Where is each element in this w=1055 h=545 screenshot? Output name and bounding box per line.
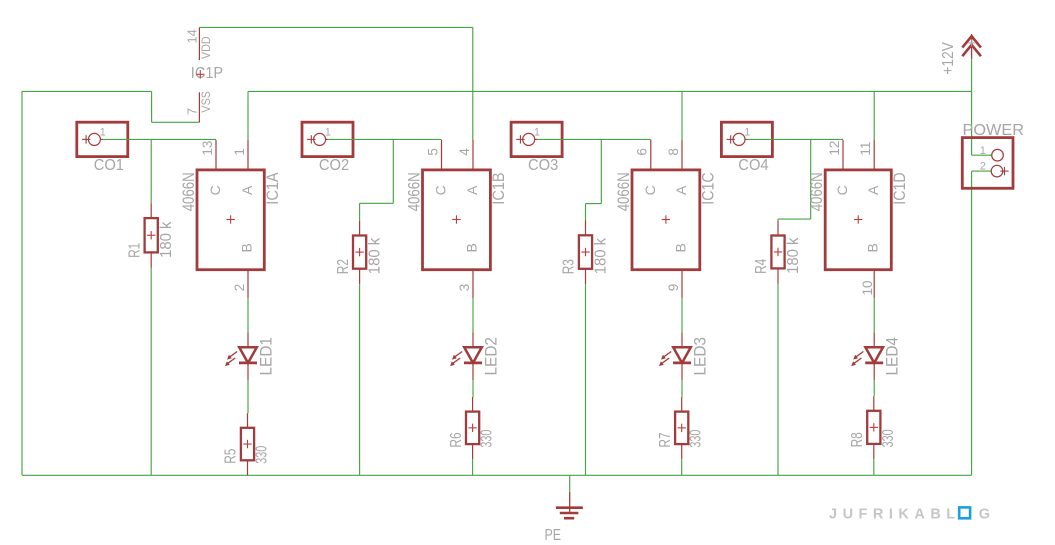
- R6 value 330: [479, 429, 496, 447]
- LED3 name: [691, 337, 709, 376]
- R1 value 180 k: [158, 221, 175, 258]
- svg-text:5: 5: [425, 148, 440, 156]
- CO2 pin number 1: [325, 126, 331, 138]
- svg-text:1: 1: [100, 126, 106, 138]
- IC1P pin 7 VSS stub: [198, 92, 200, 122]
- CO3 label: [528, 157, 558, 174]
- wire VDD net horizontal: [199, 26, 472, 28]
- pin name A: [865, 185, 881, 195]
- svg-text:R5: R5: [223, 449, 240, 464]
- resistor R2 180k: [353, 236, 366, 269]
- pin number 4: [457, 148, 472, 156]
- svg-text:8: 8: [666, 148, 681, 156]
- wire GND jog down to VSS: [151, 91, 153, 122]
- svg-text:IC1A: IC1A: [264, 172, 282, 204]
- svg-text:R6: R6: [448, 432, 465, 447]
- resistor R1 top stub: [150, 203, 152, 218]
- svg-text:12: 12: [827, 141, 842, 156]
- wire pin 2 to LED1: [247, 298, 249, 332]
- pin number 7: [185, 108, 200, 115]
- svg-text:C: C: [433, 185, 449, 195]
- R2 name: [335, 259, 352, 274]
- svg-text:330: 330: [479, 429, 496, 447]
- wire CO2 to pin 5: [328, 138, 442, 140]
- wire pin 3 to LED2: [472, 298, 474, 332]
- svg-text:IC1P: IC1P: [191, 65, 223, 82]
- wire CO1 to pin 13: [103, 138, 216, 140]
- resistor R7 bottom stub: [681, 444, 683, 459]
- wire branch jog R4: [778, 218, 811, 220]
- op-amp IC1B gate box: [423, 170, 491, 270]
- IC1A pin 1 stub: [247, 140, 249, 170]
- svg-text:C: C: [834, 185, 850, 195]
- svg-text:CO2: CO2: [319, 157, 349, 174]
- svg-text:1: 1: [534, 126, 540, 138]
- resistor R4 bottom stub: [777, 268, 779, 284]
- IC1D pin 12 stub: [842, 140, 844, 170]
- svg-text:POWER: POWER: [963, 122, 1025, 139]
- resistor R4 top stub: [777, 221, 779, 236]
- resistor R6 330: [466, 412, 479, 445]
- pin name A: [239, 185, 255, 195]
- R8 value 330: [880, 429, 897, 447]
- resistor R8 330: [867, 411, 880, 444]
- svg-text:180 k: 180 k: [785, 237, 802, 274]
- resistor R6 top stub: [472, 397, 474, 412]
- IC1B name: [490, 172, 508, 204]
- wire bottom GND rail: [22, 474, 972, 476]
- svg-text:PE: PE: [545, 527, 562, 544]
- IC1A pin 2 stub: [247, 270, 249, 298]
- svg-text:B: B: [865, 243, 881, 252]
- R7 value 330: [688, 429, 705, 447]
- svg-text:LED4: LED4: [884, 337, 902, 376]
- svg-text:4066N: 4066N: [615, 172, 633, 211]
- R6 name: [448, 432, 465, 447]
- op IC1P label: [191, 65, 223, 82]
- svg-text:A: A: [239, 185, 255, 195]
- R7 name: [657, 432, 674, 447]
- svg-text:R4: R4: [753, 258, 770, 273]
- wire +12V stem: [971, 59, 973, 92]
- R5 name: [223, 449, 240, 464]
- svg-text:LED1: LED1: [257, 337, 275, 376]
- pin number 8: [666, 148, 681, 156]
- LED LED3: [659, 332, 691, 380]
- pin name B: [464, 243, 480, 252]
- ground PE symbol: [556, 492, 583, 518]
- wire R7 to GND rail: [681, 459, 683, 475]
- CO2 label: [319, 157, 349, 174]
- pin name B: [673, 243, 689, 252]
- IC1D name: [891, 172, 909, 204]
- pin number 14: [185, 29, 200, 43]
- svg-text:7: 7: [185, 108, 200, 115]
- LED2 name: [482, 337, 500, 376]
- wire branch jog R3: [586, 203, 602, 205]
- wire branch down R2: [359, 203, 361, 220]
- svg-text:CO3: CO3: [528, 157, 558, 174]
- svg-text:180 k: 180 k: [592, 238, 609, 275]
- pin name A: [464, 185, 480, 195]
- wire +12V top rail: [248, 90, 972, 92]
- R1 name: [126, 243, 143, 258]
- R8 name: [849, 432, 866, 447]
- IC1C name: [700, 172, 718, 204]
- IC1B part 4066N: [405, 172, 423, 211]
- supply +12V symbol: [962, 34, 981, 59]
- svg-text:3: 3: [457, 284, 472, 292]
- IC1C part 4066N: [615, 172, 633, 211]
- pin name C: [207, 185, 223, 195]
- pin number 1: [232, 148, 247, 156]
- IC1P pin 14 VDD stub: [198, 27, 200, 60]
- CO3 pin number 1: [534, 126, 540, 138]
- pin number 6: [635, 148, 650, 156]
- svg-text:330: 330: [880, 429, 897, 447]
- IC1C pin 8 stub: [681, 140, 683, 170]
- pin name VSS: [200, 91, 213, 113]
- svg-text:R1: R1: [126, 243, 143, 258]
- R5 value 330: [254, 446, 271, 464]
- R3 name: [561, 259, 578, 274]
- CO1 pin number 1: [100, 126, 106, 138]
- wire pin 1 to +12V rail: [247, 91, 249, 140]
- wire GND jog to VSS pin: [152, 121, 200, 123]
- LED LED1: [225, 332, 257, 380]
- wire branch down R4: [777, 219, 779, 221]
- PE label: [545, 527, 562, 544]
- pin number 11: [858, 142, 873, 156]
- svg-text:6: 6: [635, 148, 650, 156]
- resistor R2 top stub: [359, 221, 361, 236]
- svg-text:180 k: 180 k: [366, 238, 383, 275]
- IC1A pin 13 stub: [215, 140, 217, 170]
- connector CO1: [77, 122, 128, 156]
- resistor R1 180k: [145, 218, 158, 252]
- resistor R3 180k: [579, 235, 592, 268]
- resistor R8 bottom stub: [873, 444, 875, 459]
- wire R4 to GND rail: [777, 284, 779, 475]
- svg-text:A: A: [464, 185, 480, 195]
- LED LED2: [450, 332, 482, 380]
- svg-text:4066N: 4066N: [180, 172, 198, 211]
- LED1 name: [257, 337, 275, 376]
- wire LED3 to R7: [681, 380, 683, 397]
- wire branch drop R2: [392, 139, 394, 203]
- svg-text:C: C: [207, 185, 223, 195]
- svg-text:4066N: 4066N: [405, 172, 423, 211]
- IC1C pin 9 stub: [681, 270, 683, 298]
- pin name C: [433, 185, 449, 195]
- svg-text:13: 13: [200, 141, 215, 156]
- IC1B pin 5 stub: [441, 140, 443, 170]
- resistor R3 top stub: [585, 221, 587, 236]
- resistor R2 bottom stub: [359, 269, 361, 285]
- wire pin 9 to LED3: [681, 298, 683, 332]
- wire branch drop R4: [810, 139, 812, 219]
- logo JUFRIKABLOG: [829, 506, 990, 522]
- resistor R5 top stub: [247, 413, 249, 428]
- IC1D pin 10 stub: [873, 270, 875, 298]
- POWER pin 1 circle: [990, 149, 1003, 161]
- R4 value 180 k: [785, 237, 802, 274]
- svg-text:JUFRIKABL: JUFRIKABL: [829, 506, 961, 522]
- wire pin 10 to LED4: [873, 298, 875, 332]
- wire branch jog R2: [360, 202, 394, 204]
- wire pin 11 to +12V rail: [873, 91, 875, 140]
- POWER pin number 1: [980, 145, 986, 157]
- svg-text:LED3: LED3: [691, 337, 709, 376]
- wire pin 8 to +12V rail: [681, 91, 683, 140]
- wire POWER pin2: [972, 170, 992, 172]
- wire LED4 to R8: [873, 380, 875, 396]
- wire branch drop R3: [600, 139, 602, 203]
- svg-text:4066N: 4066N: [808, 172, 826, 211]
- svg-text:R7: R7: [657, 432, 674, 447]
- pin number 10: [860, 280, 875, 295]
- svg-text:9: 9: [666, 284, 681, 292]
- svg-text:1: 1: [232, 148, 247, 156]
- resistor R7 top stub: [681, 397, 683, 412]
- POWER pin number 2: [980, 161, 986, 173]
- resistor R6 bottom stub: [472, 444, 474, 459]
- IC1B pin 3 stub: [472, 270, 474, 298]
- wire left rail vertical: [21, 91, 23, 475]
- pin number 9: [666, 284, 681, 292]
- svg-text:A: A: [865, 185, 881, 195]
- CO4 pin number 1: [744, 126, 750, 138]
- pin name C: [642, 185, 658, 195]
- R4 name: [753, 258, 770, 273]
- pin name B: [239, 243, 255, 252]
- wire R2 to GND rail: [359, 284, 361, 475]
- pin number 5: [425, 148, 440, 156]
- IC1C pin 6 stub: [650, 140, 652, 170]
- svg-text:LED2: LED2: [482, 337, 500, 376]
- svg-text:IC1C: IC1C: [700, 172, 718, 204]
- POWER label: [963, 122, 1025, 139]
- resistor R4 180k: [771, 236, 784, 269]
- IC1D pin 11 stub: [873, 140, 875, 170]
- op-amp IC1A gate box: [197, 170, 264, 270]
- svg-text:A: A: [673, 185, 689, 195]
- R2 value 180 k: [366, 238, 383, 275]
- wire CO3 to pin 6: [537, 138, 651, 140]
- svg-text:CO1: CO1: [94, 157, 124, 174]
- IC1A name: [264, 172, 282, 204]
- pin name C: [834, 185, 850, 195]
- +12V label: [940, 42, 957, 75]
- resistor R7 330: [675, 412, 688, 445]
- op-amp IC1C gate box: [632, 170, 700, 270]
- resistor R5 330: [241, 428, 254, 461]
- svg-text:IC1D: IC1D: [891, 172, 909, 204]
- wire branch down R3: [585, 204, 587, 221]
- IC1B pin 4 stub: [472, 140, 474, 170]
- IC1P origin cross: [196, 70, 204, 78]
- svg-text:180 k: 180 k: [158, 221, 175, 258]
- wire GND rail to PE: [569, 475, 571, 492]
- connector CO4: [721, 122, 772, 156]
- svg-text:1: 1: [744, 126, 750, 138]
- resistor R5 bottom stub: [247, 460, 249, 475]
- wire R8 to GND rail: [873, 459, 875, 475]
- svg-text:330: 330: [688, 429, 705, 447]
- wire R6 to GND rail: [472, 459, 474, 475]
- CO4 label: [738, 157, 769, 174]
- pin number 2: [232, 284, 247, 292]
- wire right rail vertical: [971, 171, 973, 475]
- svg-text:IC1B: IC1B: [490, 172, 508, 204]
- wire POWER pin1: [972, 154, 992, 156]
- CO1 label: [94, 157, 124, 174]
- pin number 12: [827, 141, 842, 156]
- wire CO4 to pin 12: [747, 138, 843, 140]
- svg-text:B: B: [239, 243, 255, 252]
- svg-text:11: 11: [858, 142, 873, 156]
- wire branch to R1: [150, 139, 152, 203]
- IC1D part 4066N: [808, 172, 826, 211]
- LED LED4: [851, 332, 883, 380]
- POWER pin 2 circle: [990, 165, 1009, 177]
- svg-text:14: 14: [185, 29, 200, 43]
- svg-text:2: 2: [232, 284, 247, 292]
- svg-text:+12V: +12V: [940, 42, 957, 75]
- svg-text:B: B: [673, 243, 689, 252]
- pin name B: [865, 243, 881, 252]
- svg-text:330: 330: [254, 446, 271, 464]
- wire LED2 to R6: [472, 380, 474, 397]
- connector POWER box: [962, 138, 1013, 189]
- svg-text:G: G: [979, 506, 990, 522]
- wire R1 to GND rail: [150, 268, 152, 475]
- pin number 3: [457, 284, 472, 292]
- svg-text:CO4: CO4: [738, 157, 769, 174]
- resistor R3 bottom stub: [585, 269, 587, 285]
- R3 value 180 k: [592, 238, 609, 275]
- svg-text:1: 1: [325, 126, 331, 138]
- LED4 name: [884, 337, 902, 376]
- svg-text:R3: R3: [561, 259, 578, 274]
- connector CO2: [302, 122, 353, 156]
- wire +12V rail down to POWER: [971, 91, 973, 155]
- svg-text:C: C: [642, 185, 658, 195]
- svg-text:B: B: [464, 243, 480, 252]
- wire LED1 to R5: [247, 380, 249, 413]
- wire R3 to GND rail: [585, 284, 587, 475]
- svg-text:4: 4: [457, 148, 472, 156]
- wire R5 to GND rail: [247, 474, 249, 476]
- wire GND left rail horizontal: [22, 90, 152, 92]
- svg-text:R8: R8: [849, 432, 866, 447]
- wire VDD net drop to pin 4: [472, 27, 474, 140]
- op-amp IC1D gate box: [825, 170, 891, 270]
- pin name A: [673, 185, 689, 195]
- IC1A part 4066N: [180, 172, 198, 211]
- resistor R8 top stub: [873, 396, 875, 411]
- svg-text:R2: R2: [335, 259, 352, 274]
- svg-text:VSS: VSS: [200, 91, 213, 113]
- resistor R1 bottom stub: [150, 252, 152, 268]
- pin number 13: [200, 141, 215, 156]
- svg-text:10: 10: [860, 280, 875, 295]
- pin name VDD: [200, 36, 213, 59]
- svg-text:VDD: VDD: [200, 36, 213, 59]
- connector CO3: [511, 122, 562, 156]
